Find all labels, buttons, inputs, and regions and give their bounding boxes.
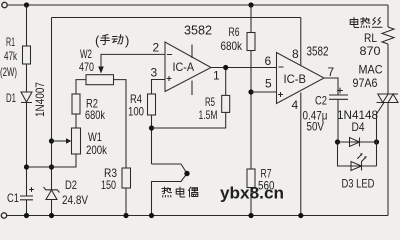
hanzi 热 — [162, 187, 172, 197]
svg-text:W2: W2 — [80, 47, 92, 61]
wire triac to bottom rail — [387, 103, 389, 216]
W2 wiper arrow and wire to pin2 — [101, 54, 165, 67]
svg-text:470: 470 — [79, 60, 94, 74]
resistor RL 870 heater — [382, 27, 394, 44]
svg-text:6: 6 — [265, 54, 272, 68]
svg-text:W1: W1 — [88, 130, 102, 144]
svg-text:ybx8.cn: ybx8.cn — [220, 185, 284, 203]
wire feedback node to R5 — [152, 112, 226, 128]
svg-text:24.8V: 24.8V — [62, 193, 88, 207]
wire D1 to C1 node — [26, 103, 28, 197]
wire right column top — [387, 5, 389, 27]
wire R5 top to IC-A output — [225, 68, 227, 96]
resistor R7 560 — [247, 169, 255, 188]
node D4 left — [335, 139, 340, 144]
node pin4 bottom rail — [298, 213, 303, 218]
node D2 bottom rail — [49, 213, 54, 218]
svg-text:1: 1 — [213, 69, 220, 83]
op-amp IC-B — [277, 53, 325, 104]
node C1 bottom rail — [24, 213, 29, 218]
W1 wiper arrow — [66, 138, 71, 144]
resistor R6 680k — [247, 33, 255, 51]
wire W2 right to R3 column — [114, 80, 127, 168]
diode D1 1N4007 — [21, 92, 32, 103]
svg-text:IC-A: IC-A — [173, 60, 195, 74]
wire supply left column — [51, 18, 53, 190]
wire supply rail top — [52, 17, 301, 19]
svg-text:50V: 50V — [307, 120, 325, 134]
wire top rail — [8, 4, 389, 6]
terminal bottom-left — [1, 213, 6, 218]
svg-text:(: ( — [95, 33, 100, 48]
svg-text:4: 4 — [292, 98, 299, 112]
svg-text:47k: 47k — [4, 49, 18, 63]
wire R1 column top — [26, 5, 28, 46]
terminal top-left — [2, 2, 7, 7]
wire D2 to bottom rail — [51, 200, 53, 216]
hanzi 电 — [176, 187, 185, 197]
svg-text:D1: D1 — [6, 91, 16, 105]
svg-text:R6: R6 — [229, 25, 240, 39]
hanzi 动 — [112, 35, 123, 45]
svg-text:8: 8 — [292, 47, 299, 61]
wire IC-B pin8 to supply rail — [300, 18, 302, 66]
resistor R5 1.5M — [222, 95, 230, 112]
wire IC-A output to IC-B pin6 — [211, 67, 277, 69]
svg-text:5: 5 — [265, 77, 272, 91]
svg-text:680k: 680k — [221, 39, 243, 53]
resistor R4 100 — [148, 94, 156, 115]
svg-text:D4: D4 — [352, 120, 365, 134]
wire C1 to bottom rail — [26, 200, 28, 216]
zener diode D2 24.8V — [44, 187, 60, 200]
svg-text:1.5M: 1.5M — [199, 108, 218, 122]
wire pin3 from R4 column — [152, 80, 166, 95]
node D4 right — [374, 139, 379, 144]
svg-text:RL: RL — [364, 31, 377, 45]
wire bottom rail — [7, 215, 388, 217]
wire R6 to R7 crossing pin6 — [250, 51, 252, 170]
svg-text:): ) — [125, 33, 129, 48]
svg-text:(2W): (2W) — [0, 65, 17, 79]
svg-text:100: 100 — [128, 105, 144, 119]
svg-text:D3 LED: D3 LED — [342, 177, 375, 191]
wire R7 to bottom rail — [250, 188, 252, 216]
resistor R1 — [23, 46, 31, 64]
wire RL to triac — [387, 44, 389, 94]
svg-text:3582: 3582 — [184, 23, 212, 38]
wire W1 bottom to rectifier node — [27, 154, 77, 167]
node pin5 tap — [248, 89, 253, 94]
node top rail / R1 column junction — [24, 2, 29, 7]
resistor R3 150 — [122, 168, 131, 188]
hanzi 偶 — [189, 187, 198, 197]
diode D4 1N4148 — [338, 138, 377, 147]
op-amp IC-A — [165, 42, 211, 92]
svg-text:870: 870 — [360, 44, 381, 58]
potentiometer W2 470 — [86, 75, 114, 85]
wire W1 top to R2 — [75, 114, 77, 128]
LED D3 — [338, 142, 377, 171]
svg-text:C2: C2 — [315, 94, 327, 108]
node top rail / R6 column junction — [248, 2, 253, 7]
svg-text:3: 3 — [151, 66, 158, 80]
node W1 wiper tap — [49, 138, 54, 143]
wire R3 to bottom rail — [125, 188, 127, 216]
wire gate column — [376, 114, 378, 166]
node R3 bottom rail — [123, 213, 128, 218]
node R7 bottom rail — [248, 213, 253, 218]
svg-text:2: 2 — [153, 41, 160, 55]
svg-text:7: 7 — [328, 65, 335, 79]
hanzi 手 — [101, 35, 110, 45]
wire C2 to D4/D3 — [337, 99, 339, 142]
triac MAC97A6 — [377, 94, 399, 103]
wire node to W1 wiper — [52, 140, 67, 142]
wire IC-B output to C2 — [324, 78, 338, 95]
capacitor C1 — [20, 196, 33, 200]
thermocouple — [152, 164, 188, 216]
triac gate — [377, 103, 385, 115]
svg-text:D2: D2 — [65, 178, 77, 192]
IC-A power pin ticks — [191, 45, 193, 96]
capacitor C2 0.47u — [329, 95, 348, 99]
resistor R2 680k — [72, 94, 80, 114]
svg-text:R5: R5 — [205, 95, 215, 109]
wire R4 to thermocouple node — [151, 115, 153, 164]
svg-text:3582: 3582 — [307, 45, 329, 59]
wire R1 to D1 — [26, 64, 28, 92]
hanzi 电热丝 label — [350, 18, 359, 28]
svg-text:1N4007: 1N4007 — [33, 82, 47, 117]
node output / R5 — [223, 65, 228, 70]
svg-text:C1: C1 — [7, 191, 19, 205]
node supply column / rectifier — [49, 164, 54, 169]
svg-text:R1: R1 — [6, 35, 15, 49]
wire R6 column top — [250, 5, 252, 33]
svg-text:150: 150 — [101, 178, 116, 192]
node R4 bottom / R5 feedback — [149, 125, 154, 130]
potentiometer W1 200k — [72, 128, 81, 154]
svg-text:680k: 680k — [85, 108, 106, 122]
node rectified supply — [24, 164, 29, 169]
wire IC-B pin4 to bottom rail — [300, 93, 302, 216]
wire R2 top to W2 left — [76, 80, 86, 94]
svg-text:MAC: MAC — [359, 63, 383, 77]
wire pin5 — [251, 91, 277, 93]
svg-text:200k: 200k — [86, 143, 108, 157]
svg-text:IC-B: IC-B — [284, 72, 307, 86]
svg-text:97A6: 97A6 — [353, 76, 378, 90]
